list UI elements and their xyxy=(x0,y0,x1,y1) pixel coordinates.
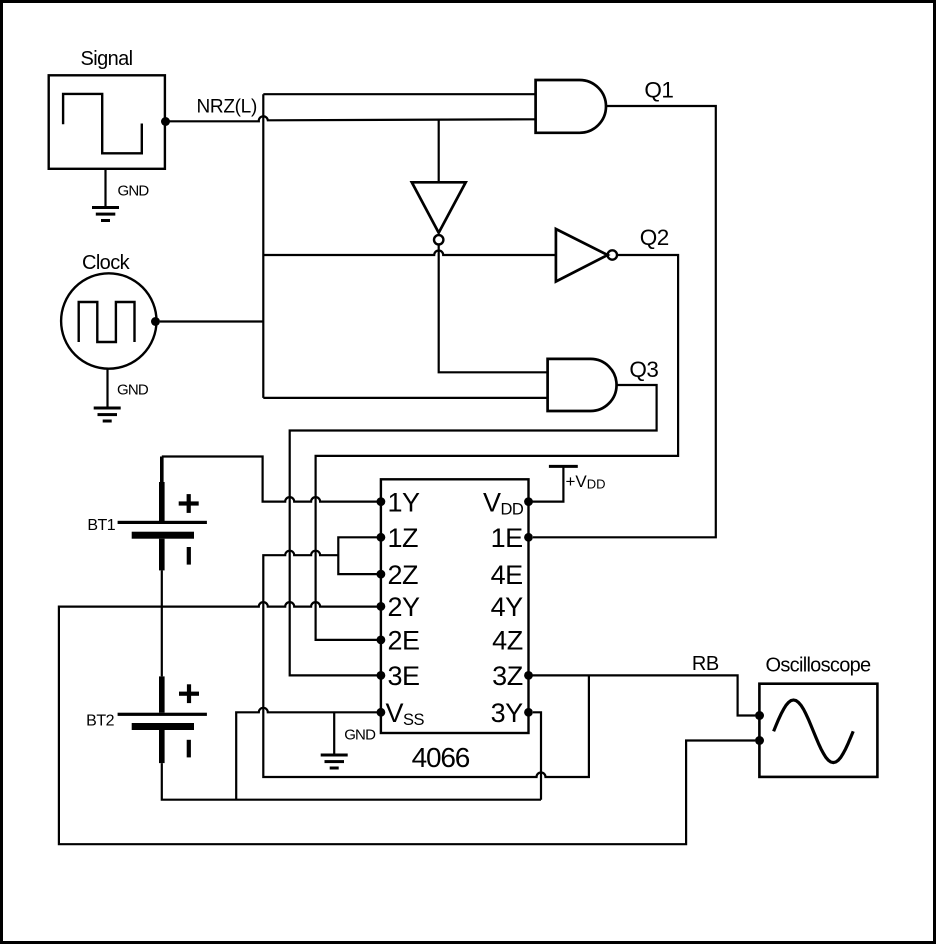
wire BT1 plus to 1Y (hops over Q3 and Q2 drop lines) xyxy=(162,457,381,502)
svg-text:1E: 1E xyxy=(491,523,523,553)
node scope input top xyxy=(755,711,764,720)
node pin 1Z xyxy=(377,533,386,542)
svg-text:GND: GND xyxy=(344,727,376,744)
svg-text:2E: 2E xyxy=(388,626,420,656)
node pin 3Z xyxy=(524,671,533,680)
wire clock bus vertical xyxy=(262,94,264,398)
ground symbol below signal xyxy=(92,206,119,222)
svg-text:4Z: 4Z xyxy=(492,626,523,656)
wire clock GND stem xyxy=(106,369,108,407)
wire NRZ(L) signal to AND Q1 lower input (hop over clock bus) xyxy=(166,116,536,121)
battery BT2 xyxy=(118,676,207,763)
node signal output xyxy=(161,117,170,126)
wire NOT gate input from NRZ line xyxy=(438,120,440,182)
wire VSS GND stem xyxy=(333,712,335,754)
svg-text:Oscilloscope: Oscilloscope xyxy=(766,655,872,677)
wire 3Y down to rail xyxy=(533,712,541,799)
AND gate Q3 xyxy=(548,359,617,411)
svg-text:3Z: 3Z xyxy=(492,661,523,691)
wire Q1 output to 1E xyxy=(533,106,716,537)
svg-text:4E: 4E xyxy=(491,560,523,590)
BT1 plus sign xyxy=(179,501,199,505)
node pin VSS xyxy=(377,708,386,717)
NOT gate U1 triangle xyxy=(412,182,466,233)
node pin 2E xyxy=(377,636,386,645)
wire 2Y to oscilloscope lower input (hops over three verticals) xyxy=(59,602,755,844)
wire clock to bus xyxy=(160,320,263,322)
svg-text:3E: 3E xyxy=(388,661,420,691)
ground symbol below clock xyxy=(94,407,121,423)
oscilloscope box xyxy=(759,684,877,777)
svg-text:Signal: Signal xyxy=(81,48,133,70)
buffer Q2 bubble xyxy=(608,250,617,259)
svg-text:4Y: 4Y xyxy=(491,592,524,622)
svg-text:4066: 4066 xyxy=(412,742,470,773)
svg-text:BT2: BT2 xyxy=(86,713,114,730)
node pin 2Y xyxy=(377,602,386,611)
signal source box xyxy=(49,75,165,169)
svg-text:2Z: 2Z xyxy=(388,560,419,590)
IC 4066 body xyxy=(381,479,529,733)
BT2 minus sign xyxy=(187,740,191,758)
wire Q3 lower input xyxy=(263,397,547,399)
svg-text:RB: RB xyxy=(692,653,719,675)
wire VDD to +VDD symbol xyxy=(529,468,564,502)
svg-text:1Z: 1Z xyxy=(388,523,419,553)
node scope input bottom xyxy=(755,736,764,745)
wire VSS branch (hop over 3Z net) xyxy=(236,708,381,800)
wire 3Z to oscilloscope upper input xyxy=(529,675,756,715)
AND gate Q1 xyxy=(536,80,606,133)
NOT gate U1 bubble xyxy=(434,235,443,244)
BT1 minus sign xyxy=(187,547,191,565)
node pin 3E xyxy=(377,671,386,680)
clock source circle xyxy=(61,273,156,368)
wire Q2 inverter input (hop over NOT output line) xyxy=(263,251,556,256)
clock waveform xyxy=(79,302,135,342)
wire NOT output down to Q3 top input xyxy=(439,245,548,373)
node pin 2Z xyxy=(377,570,386,579)
svg-text:Clock: Clock xyxy=(82,252,131,274)
oscilloscope sine wave xyxy=(774,700,854,763)
BT2 plus sign xyxy=(179,692,199,696)
battery BT1 xyxy=(118,457,207,571)
svg-text:GND: GND xyxy=(118,182,150,199)
ground symbol at VSS xyxy=(321,754,348,770)
svg-text:GND: GND xyxy=(117,382,149,399)
wire top bus to AND Q1 upper input xyxy=(263,93,535,95)
svg-text:BT1: BT1 xyxy=(87,517,115,534)
node pin VDD xyxy=(524,497,533,506)
wire 1Z/2Z to 3Z net (hops) xyxy=(263,551,589,777)
wire BT2 minus to VSS / 3Y rail xyxy=(162,763,541,800)
svg-text:1Y: 1Y xyxy=(388,487,421,517)
wire Q3 output to 3E xyxy=(290,385,657,675)
node pin 1Y xyxy=(377,497,386,506)
wire 1Z to 2Z jumper xyxy=(338,537,381,574)
node pin 3Y xyxy=(524,708,533,717)
wire battery chain BT1-BT2 xyxy=(161,570,163,676)
buffer gate Q2 triangle xyxy=(556,229,608,282)
svg-text:Q1: Q1 xyxy=(644,78,673,103)
svg-text:NRZ(L): NRZ(L) xyxy=(197,97,257,118)
+VDD T bar xyxy=(549,465,578,468)
svg-text:Q2: Q2 xyxy=(640,225,669,250)
svg-text:Q3: Q3 xyxy=(629,357,658,382)
svg-text:3Y: 3Y xyxy=(491,698,524,728)
node clock output xyxy=(151,317,160,326)
svg-text:2Y: 2Y xyxy=(388,592,421,622)
wire signal GND stem xyxy=(104,169,106,207)
node pin 1E xyxy=(524,533,533,542)
signal waveform xyxy=(63,94,142,153)
wire Q2 output to 2E xyxy=(316,255,678,640)
